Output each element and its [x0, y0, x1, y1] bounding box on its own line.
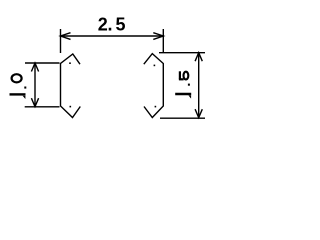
left pad top dot — [69, 62, 71, 64]
left pad bottom dot — [70, 106, 72, 108]
dimension 2.5 left arrowhead — [61, 33, 71, 40]
right pad top dot — [154, 65, 156, 67]
right pad bottom dot — [155, 106, 157, 108]
dimension 1.5 top arrowhead — [195, 53, 202, 62]
dimension 1.0 top arrowhead — [31, 63, 38, 72]
dimension 1.0 bottom extension line — [25, 106, 60, 108]
right pad outline — [144, 54, 164, 118]
dimension 2.5 right arrowhead — [153, 33, 163, 40]
dimension 1.5 top extension line — [159, 52, 205, 54]
dimension 1.5 bottom extension line — [160, 117, 205, 119]
dimension 1.5 bottom arrowhead — [195, 109, 202, 117]
left pad outline — [61, 54, 81, 118]
svg-text:2.5: 2.5 — [98, 15, 126, 35]
dimension 2.5 left extension line — [60, 29, 62, 53]
dimension 1.0 top extension line — [25, 62, 60, 64]
dimension 1.0 bottom arrowhead — [31, 98, 38, 106]
dimension 1.0 line — [34, 63, 36, 107]
dimension text 1.0 (rotated, drawn) — [10, 74, 27, 99]
dimension 1.5 line — [198, 53, 200, 118]
dimension 2.5 line — [61, 35, 164, 37]
dimension 2.5 right extension line — [162, 29, 164, 53]
dimension text 1.5 (rotated, drawn) — [175, 71, 191, 98]
